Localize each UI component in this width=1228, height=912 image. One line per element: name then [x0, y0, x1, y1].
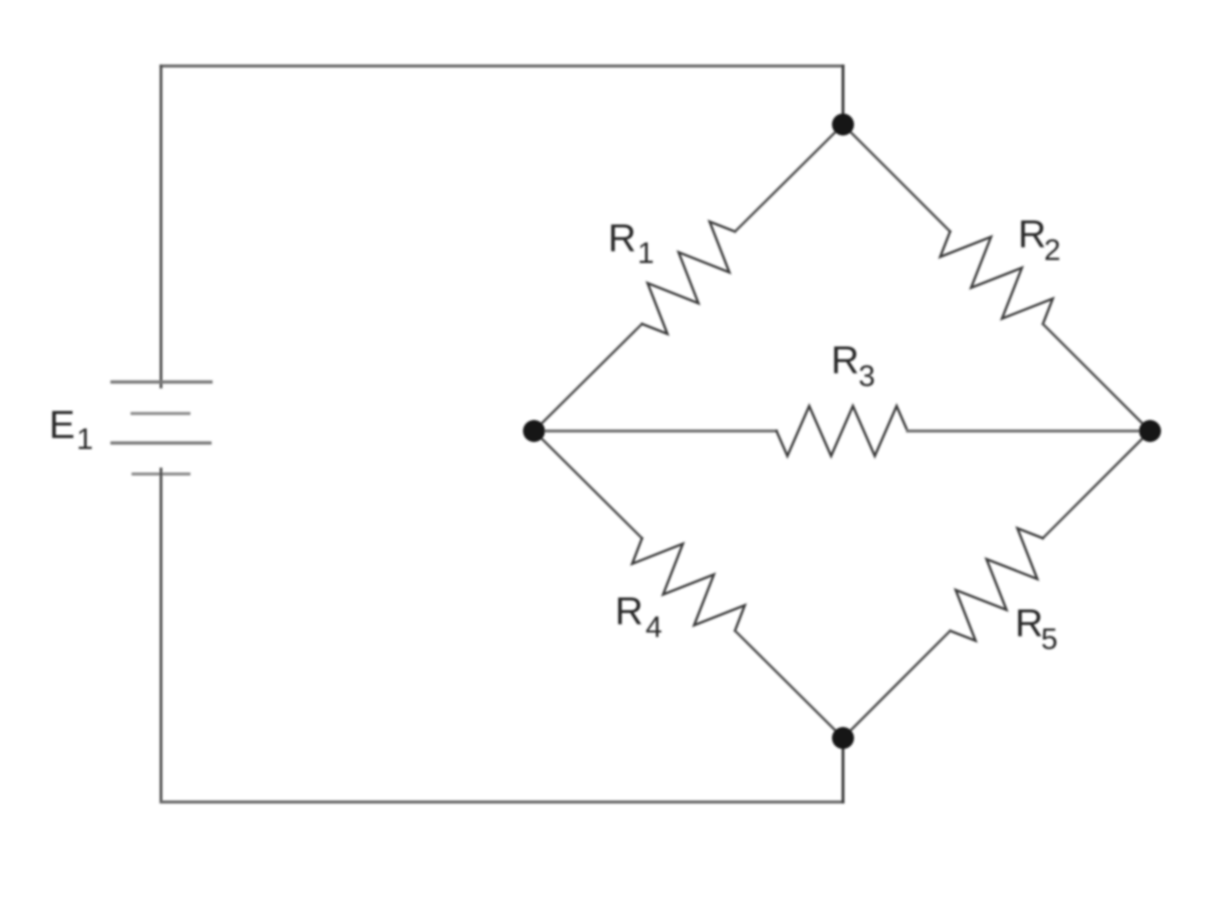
node top junction dot	[832, 114, 854, 136]
wire bottom from battery to bridge stub	[161, 801, 843, 804]
svg-text:1: 1	[638, 237, 655, 270]
label E1	[49, 404, 93, 456]
svg-text:2: 2	[1044, 234, 1061, 267]
node right junction dot	[1139, 420, 1161, 442]
resistor R2	[940, 232, 1053, 325]
wire top stub down to top node	[842, 66, 845, 125]
wire lead top node to R2	[843, 125, 950, 232]
svg-text:R: R	[608, 217, 636, 260]
resistor R4	[632, 538, 745, 630]
wire lead R3 to right node	[908, 430, 1151, 433]
label R3	[831, 339, 875, 393]
svg-text:4: 4	[646, 611, 663, 644]
wire lead left node to R3	[534, 430, 777, 433]
wire lead R2 to right node	[1043, 324, 1150, 431]
wire top from battery to bridge stub	[161, 65, 843, 68]
wire lead R1 to top node	[735, 125, 843, 232]
battery E1 plate short	[132, 412, 189, 415]
node left junction dot	[523, 420, 545, 442]
wire left rail upper (battery + to top)	[160, 66, 163, 387]
label R5	[1015, 602, 1058, 656]
svg-text:E: E	[49, 404, 75, 447]
wire bottom stub up to bottom node	[842, 738, 845, 802]
label R1	[608, 217, 654, 270]
svg-text:R: R	[1018, 213, 1046, 256]
label R2	[1018, 213, 1061, 267]
resistor R3	[777, 406, 908, 456]
svg-text:3: 3	[859, 360, 876, 393]
label R4	[615, 590, 662, 644]
svg-text:1: 1	[77, 423, 94, 456]
battery E1 plate long top	[112, 380, 211, 383]
svg-text:R: R	[1015, 602, 1043, 645]
wire lead R4 to bottom node	[735, 631, 843, 738]
battery E1 plate short bottom	[133, 473, 189, 476]
wire lead right node to R5	[1043, 431, 1150, 538]
wire lead left node to R4	[534, 431, 642, 538]
svg-text:5: 5	[1041, 623, 1058, 656]
wire left rail lower (battery - to bottom)	[160, 469, 163, 802]
svg-text:R: R	[831, 339, 859, 382]
wire lead R5 to bottom node	[843, 631, 950, 738]
node bottom junction dot	[832, 727, 854, 749]
resistor R1	[642, 222, 735, 334]
wire lead left node to R1	[534, 324, 642, 431]
battery E1 plate long bottom	[112, 441, 210, 444]
resistor R5	[950, 528, 1043, 641]
svg-text:R: R	[615, 590, 643, 633]
